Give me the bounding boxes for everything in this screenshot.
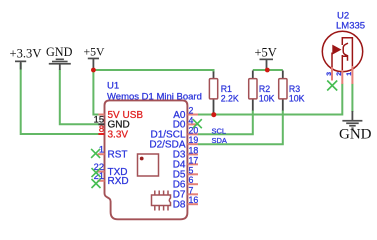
wire U2 pin 1 to GND [351,84,353,113]
power symbol +3.3V [10,46,42,69]
wire +3.3V to U1 pin 8 (3.3V) [21,63,99,134]
resistor R1 [209,72,217,113]
IC U1 body outline [105,100,188,219]
svg-text:+5V: +5V [255,46,277,60]
U1 pin RXD stub (pin 21) [98,180,105,182]
U1 pin 3.3V stub (pin 8) [98,133,104,135]
svg-text:GND: GND [46,45,73,59]
no-connect X on D0 pin [193,119,202,128]
ground symbol GND (right, below U2) [339,111,372,143]
wire +5V to U1 pin 5V USB [93,70,98,115]
svg-text:8: 8 [99,124,104,134]
svg-text:3: 3 [326,72,333,76]
label R2 value 10K [259,84,275,103]
svg-text:RST: RST [108,150,128,161]
svg-text:7: 7 [189,185,194,195]
wire R1 bottom to A0 junction [213,112,215,115]
label R3 value 10K [289,84,305,103]
svg-text:17: 17 [189,155,199,165]
svg-text:3.3V: 3.3V [108,129,129,140]
wire net SCL: U1 pin 20 to R2 bottom [198,110,253,134]
svg-text:D8: D8 [173,200,186,211]
svg-text:2: 2 [189,106,194,116]
svg-text:2.2K: 2.2K [221,93,239,103]
no-connect X on RST pin [91,149,100,158]
no-connect X on U2 pin 3 [327,81,337,91]
resistor R2 [249,71,257,111]
wire net A0: U1 pin 2 to R1 bottom to U2 pin 2 [198,84,342,115]
transistor/sensor U2 LM335 body [322,31,362,71]
no-connect X on TXD pin [92,168,101,177]
svg-text:5: 5 [189,165,194,175]
svg-text:10K: 10K [289,93,305,103]
U2 pin stubs [332,66,352,84]
junction dot A0/R1 [211,112,216,117]
U1 pin TXD stub (pin 22) [98,171,105,173]
wire +5V rail above R2 R3 [253,69,283,71]
svg-text:GND: GND [339,127,372,143]
junction dot +5V left [91,68,96,73]
U1 internal chip glyph [152,191,171,211]
svg-text:+5V: +5V [84,45,106,59]
svg-text:2: 2 [336,72,343,76]
resistor R3 [279,71,287,111]
U1 pin RST stub (pin 1) [98,153,105,155]
power symbol +5V (left) [84,45,106,70]
U1 pin 5V USB stub [98,114,104,116]
wire +5V to R1 top [93,70,213,73]
svg-text:15: 15 [94,115,104,125]
no-connect X on RXD pin [92,179,101,188]
svg-text:LM335: LM335 [336,21,365,32]
svg-text:18: 18 [189,145,199,155]
svg-text:SDA: SDA [212,136,227,145]
svg-text:U1: U1 [107,81,119,92]
U1 pin GND stub (pin 15) [98,123,104,125]
U1 right pin stubs A0 D0 D1 D2 D3 D4 D5 D6 D7 D8 [187,115,198,205]
svg-text:10K: 10K [259,93,275,103]
svg-text:19: 19 [189,135,199,145]
wire net SDA: U1 pin 19 to R3 bottom [198,110,283,144]
svg-text:1: 1 [346,72,353,76]
svg-text:6: 6 [189,175,194,185]
svg-text:4: 4 [189,115,194,125]
svg-text:SCL: SCL [212,126,227,135]
wire GND to U1 pin 15 (GND) [60,70,99,125]
IC U1 Wemos D1 Mini Board reference labels [107,81,202,103]
svg-text:RXD: RXD [108,176,129,187]
ground symbol GND (left, inverted) [46,45,73,70]
op U2 LM335 reference labels [336,11,365,32]
svg-text:16: 16 [189,195,199,205]
power symbol +5V (right, above R2 R3) [255,46,277,70]
junction dot +5V right [265,68,270,73]
U1 internal square module [138,154,159,176]
label R1 value 2.2K [221,84,239,103]
svg-text:+3.3V: +3.3V [10,46,42,60]
